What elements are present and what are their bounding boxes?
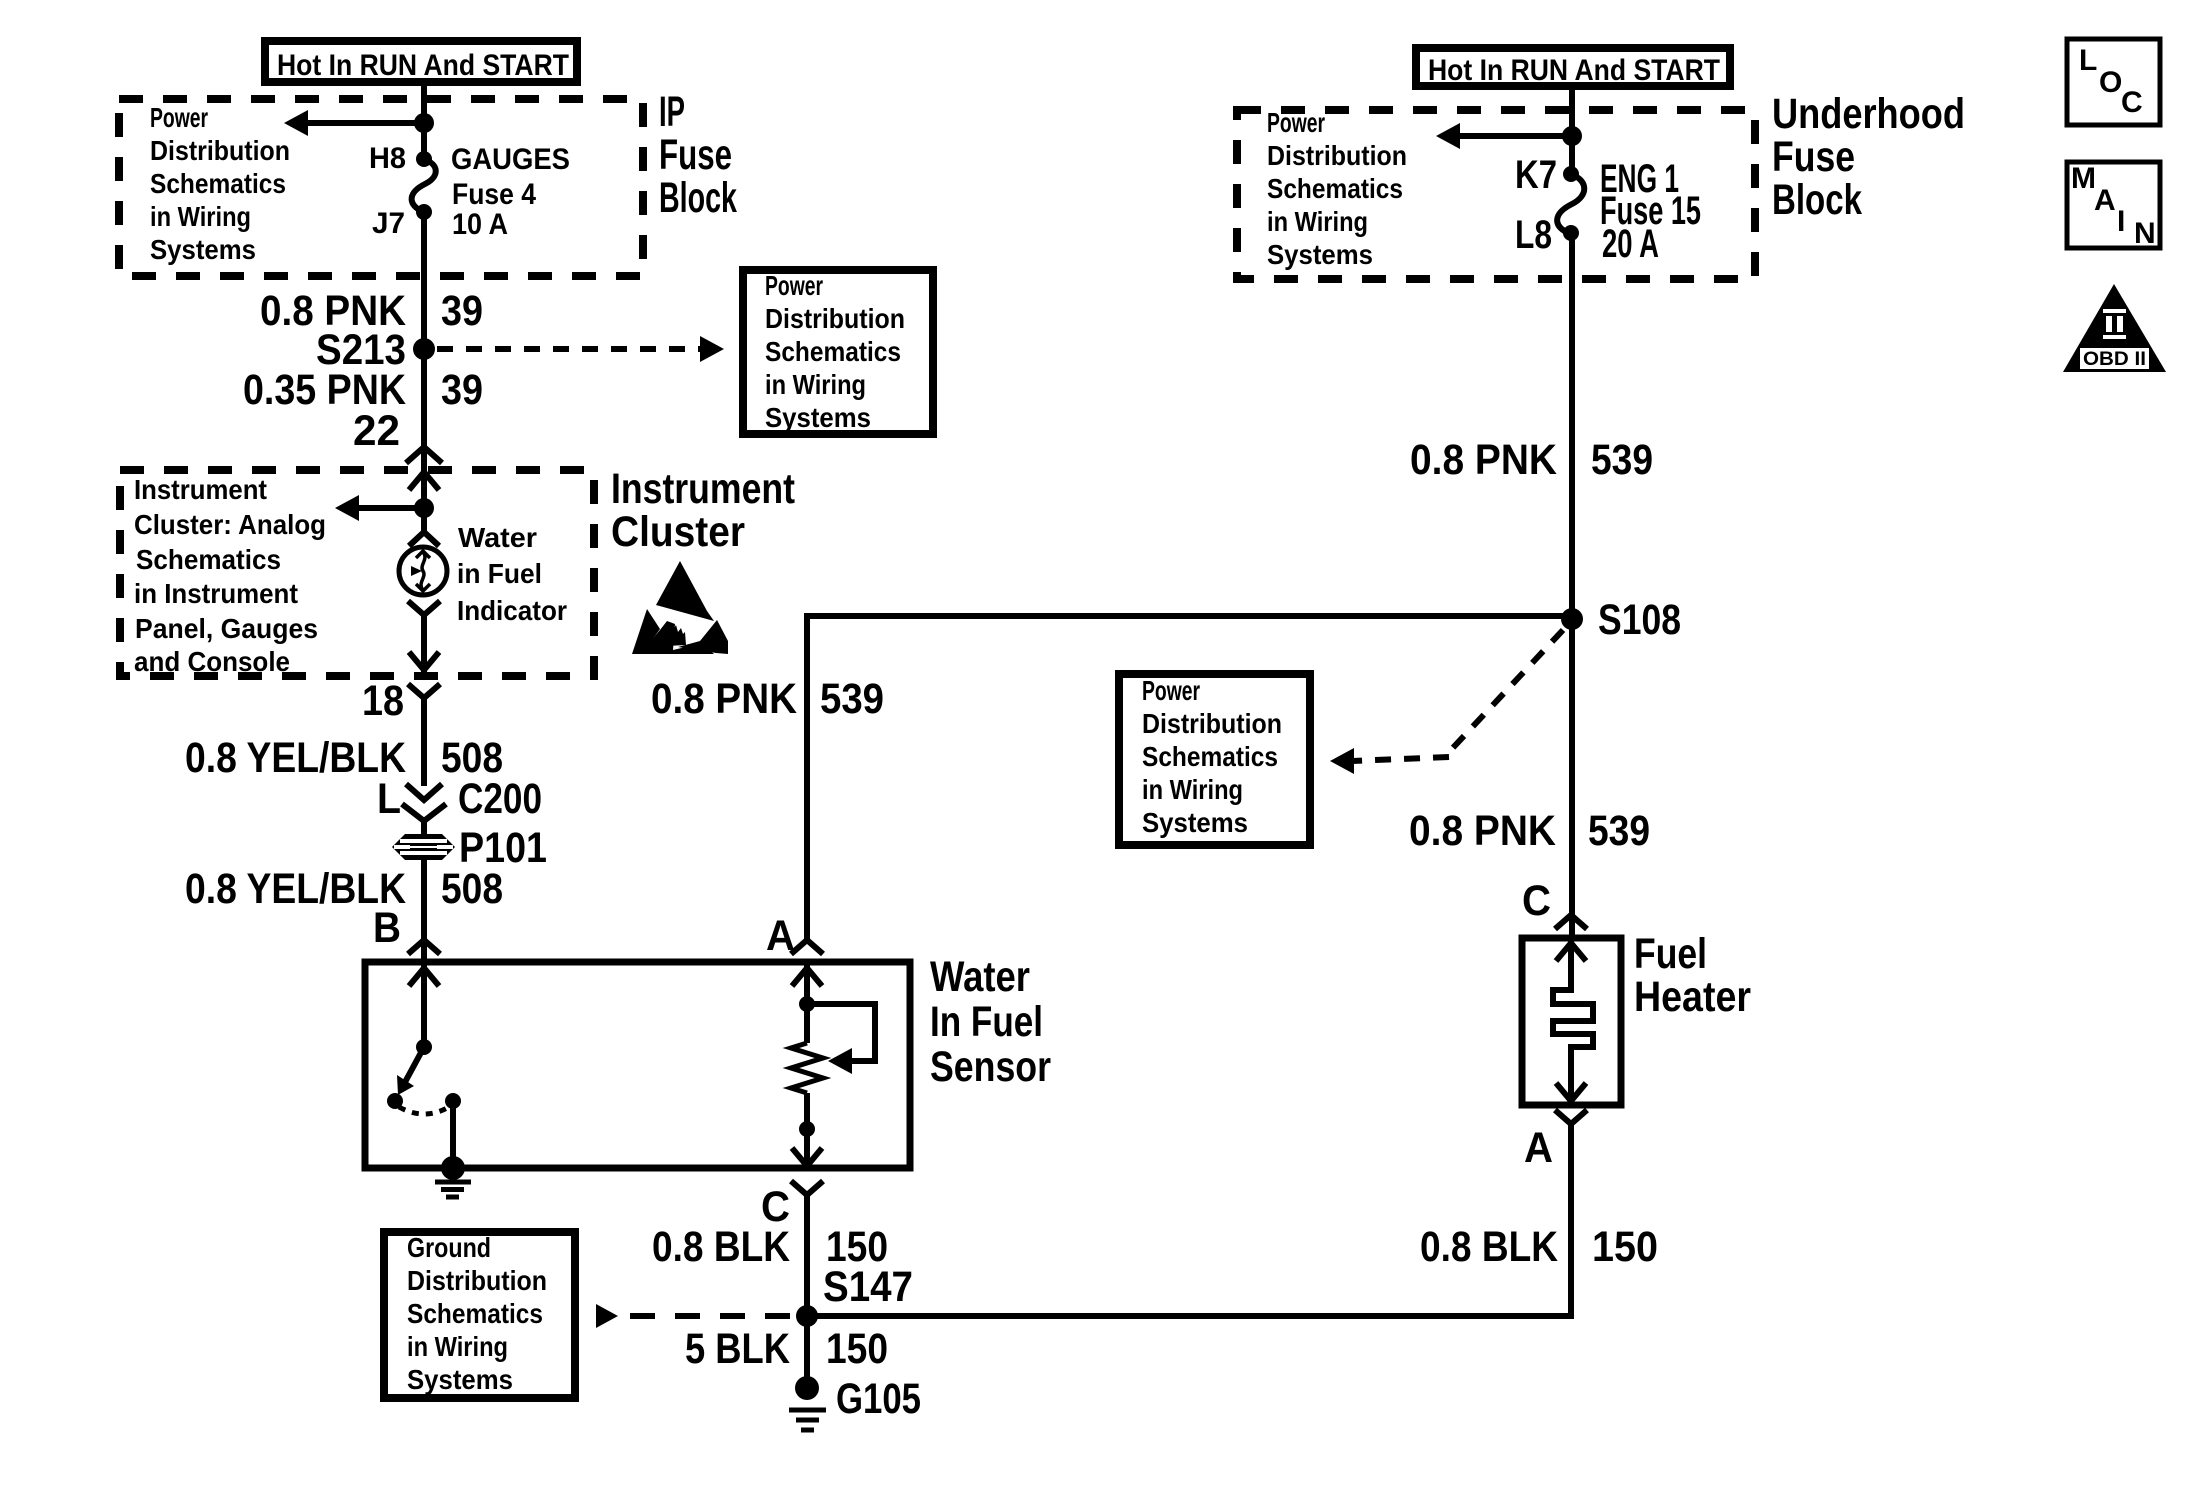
wire: arrow to power distribution (left) (284, 110, 424, 136)
note box: Ground Distribution Schematics in Wiring Systems (384, 1232, 575, 1398)
label: Water In Fuel Sensor (930, 953, 1051, 1091)
svg-text:508: 508 (441, 865, 503, 913)
note box: Power Distribution Schematics in Wiring Systems (S213 ref) (743, 270, 933, 434)
svg-text:Schematics: Schematics (765, 336, 901, 367)
svg-text:Cluster: Cluster (611, 508, 745, 556)
svg-text:0.8 PNK: 0.8 PNK (651, 675, 797, 723)
component box: Water In Fuel Sensor (365, 962, 910, 1168)
wire: resistor to sensor C (804, 1093, 810, 1165)
svg-text:Sensor: Sensor (930, 1043, 1051, 1091)
fuse F4 terminal J7 (416, 204, 432, 220)
wire: dot to indicator (421, 508, 427, 533)
splice S147 (796, 1305, 818, 1327)
indicator: Water in Fuel Indicator (circle gauge) (399, 547, 447, 595)
svg-text:Fuel: Fuel (1634, 930, 1707, 978)
svg-text:Systems: Systems (407, 1364, 513, 1395)
svg-text:0.8 YEL/BLK: 0.8 YEL/BLK (185, 734, 406, 782)
node: Hot In RUN And START (right) (1416, 48, 1730, 87)
label: Underhood Fuse Block (1772, 90, 1965, 224)
svg-text:GAUGES: GAUGES (451, 143, 570, 176)
svg-text:Systems: Systems (150, 234, 256, 265)
wire: contact to case ground (450, 1101, 456, 1168)
connector half above indicator (409, 532, 439, 546)
svg-text:18: 18 (362, 677, 404, 725)
svg-text:S147: S147 (823, 1263, 913, 1311)
svg-text:22: 22 (353, 407, 400, 455)
svg-text:20 A: 20 A (1602, 222, 1659, 266)
svg-text:in Fuel: in Fuel (457, 558, 542, 589)
svg-text:L: L (377, 775, 401, 823)
svg-text:Power: Power (150, 102, 208, 133)
wire: S108 branch to water in fuel sensor pin A (807, 616, 1572, 940)
svg-text:in Wiring: in Wiring (407, 1331, 508, 1362)
wire: into cluster (up arrow) (409, 472, 439, 490)
label: Water in Fuel Indicator (457, 522, 567, 626)
wire: dashed reference arrow from S213 (437, 336, 724, 362)
label: Fuel Heater (1634, 930, 1751, 1021)
note: Instrument Cluster: Analog Schematics (in cluster box) (134, 474, 326, 677)
svg-text:Power: Power (1142, 675, 1200, 706)
wire: fuse output down to instrument cluster (421, 212, 427, 508)
svg-text:B: B (373, 904, 401, 952)
wire: down arrow at sensor C exit (792, 1148, 822, 1166)
wire: feed into IP fuse block (421, 83, 427, 159)
svg-text:Fuse: Fuse (659, 131, 732, 179)
label: Instrument Cluster (611, 465, 795, 556)
svg-text:0.8 BLK: 0.8 BLK (1420, 1223, 1558, 1271)
svg-text:in Wiring: in Wiring (1267, 206, 1368, 237)
svg-text:Schematics: Schematics (150, 168, 286, 199)
connector half (sensor pin B) (408, 940, 440, 954)
svg-text:Power: Power (765, 270, 823, 301)
note: Power Distribution Schematics in Wiring Systems (in IP box) (150, 102, 290, 265)
svg-text:O: O (2099, 66, 2122, 99)
switch pivot dot (416, 1039, 432, 1055)
wire: feed into underhood fuse block (1569, 86, 1575, 174)
splice S108 (1561, 608, 1583, 630)
wire: sensor A internal (up arrow) (792, 965, 822, 1043)
svg-text:5 BLK: 5 BLK (685, 1325, 790, 1373)
Instrument Cluster dashed box (120, 470, 594, 676)
wire: sensor B internal (up arrow) (409, 965, 439, 1047)
connector C200 (female half) (402, 804, 446, 821)
wire: C200 to P101 (421, 818, 427, 836)
switch arm with arrowhead (397, 1047, 424, 1095)
wire label 0.35 PNK 39 (243, 366, 483, 414)
svg-text:K7: K7 (1515, 153, 1557, 197)
wire: down arrow at cluster exit (409, 652, 439, 670)
connector half (sensor pin C) (791, 1181, 823, 1195)
svg-text:Block: Block (1772, 176, 1862, 224)
switch throw dashed arc (399, 1107, 449, 1114)
wire label 5 BLK 150 (685, 1325, 888, 1373)
connector half (pin 22) (406, 447, 442, 463)
svg-text:Systems: Systems (1267, 239, 1373, 270)
wire label 0.8 PNK 39 (260, 287, 483, 335)
ground: sensor case ground (435, 1156, 471, 1197)
svg-text:Distribution: Distribution (150, 135, 290, 166)
note: Power Distribution Schematics in Wiring Systems (in underhood box) (1267, 107, 1407, 270)
svg-text:10 A: 10 A (452, 208, 508, 241)
svg-text:S108: S108 (1598, 596, 1681, 644)
svg-text:and Console: and Console (134, 646, 290, 677)
svg-text:A: A (1524, 1124, 1553, 1172)
wire: indicator to cluster exit (421, 615, 427, 675)
svg-text:A: A (2094, 184, 2116, 217)
junction dot (resistor top) (799, 996, 815, 1012)
svg-text:Distribution: Distribution (1267, 140, 1407, 171)
junction dot (cluster feed) (414, 498, 434, 518)
svg-text:Heater: Heater (1634, 973, 1751, 1021)
wiper feedback loop with arrowhead (807, 1004, 875, 1074)
label: ENG 1 Fuse 15 20 A (1600, 157, 1701, 266)
connector half (sensor pin A) (791, 940, 823, 954)
connector half below indicator (408, 601, 440, 615)
svg-text:Distribution: Distribution (407, 1265, 547, 1296)
note box: Power Distribution Schematics in Wiring Systems (S108 ref) (1119, 674, 1310, 845)
wire: arrow to cluster schematics (left) (335, 495, 424, 521)
wire: S147 to G105 (804, 1316, 810, 1388)
connector half (pin 18) (408, 684, 440, 698)
fuse F4 terminal H8 (416, 151, 432, 167)
svg-text:IP: IP (659, 88, 685, 136)
svg-text:Hot In RUN And START: Hot In RUN And START (277, 49, 569, 82)
svg-text:39: 39 (441, 366, 483, 414)
splice S213 (413, 338, 435, 360)
grommet P101 (392, 834, 455, 860)
connector half (heater pin A) (1555, 1110, 1587, 1124)
svg-text:39: 39 (441, 287, 483, 335)
svg-text:539: 539 (1591, 436, 1653, 484)
svg-text:Distribution: Distribution (1142, 708, 1282, 739)
wire: pin 18 down to C200 (421, 698, 427, 786)
svg-text:150: 150 (1592, 1223, 1658, 1271)
svg-text:Systems: Systems (765, 402, 871, 433)
svg-text:Instrument: Instrument (134, 474, 267, 505)
svg-text:Systems: Systems (1142, 807, 1248, 838)
svg-text:C200: C200 (458, 775, 542, 823)
wire: fuse 15 down to S108 and fuel heater (1569, 233, 1575, 938)
svg-text:Cluster: Analog: Cluster: Analog (134, 509, 326, 540)
wire label 0.8 PNK 539 (upper right) (1410, 436, 1653, 484)
svg-text:J7: J7 (372, 207, 405, 240)
ground G105 (789, 1376, 826, 1430)
wire label 0.8 BLK 150 (652, 1223, 888, 1271)
svg-text:I: I (2117, 205, 2125, 238)
resistor: sensing element (791, 1043, 823, 1093)
svg-text:Schematics: Schematics (136, 544, 281, 575)
label: IP Fuse Block (659, 88, 737, 222)
wire: dashed reference arrow from S108 (1330, 630, 1563, 774)
svg-text:Panel, Gauges: Panel, Gauges (135, 613, 318, 644)
wire: arrow to power distribution (right) (1436, 123, 1572, 149)
wire label 0.8 YEL/BLK 508 (185, 734, 503, 782)
svg-text:H8: H8 (369, 142, 406, 175)
wire label 0.8 PNK 539 (sensor branch) (651, 675, 884, 723)
wire label 0.8 BLK 150 (heater ground) (1420, 1223, 1658, 1271)
icon: ESD sensitive device triangle (632, 561, 728, 654)
component box: Fuel Heater (1522, 938, 1621, 1105)
svg-text:Underhood: Underhood (1772, 90, 1965, 138)
svg-text:0.8 PNK: 0.8 PNK (1409, 807, 1556, 855)
connector C200 (male half) (406, 784, 442, 800)
svg-text:Schematics: Schematics (1142, 741, 1278, 772)
fuse F15 terminal K7 (1563, 166, 1579, 182)
svg-text:C: C (1522, 877, 1551, 925)
svg-text:539: 539 (1588, 807, 1650, 855)
svg-text:L8: L8 (1515, 213, 1552, 257)
svg-text:N: N (2134, 217, 2156, 250)
svg-text:0.8 BLK: 0.8 BLK (652, 1223, 790, 1271)
switch contact dot (left) (387, 1093, 403, 1109)
svg-text:150: 150 (826, 1325, 888, 1373)
svg-text:Distribution: Distribution (765, 303, 905, 334)
wire: sensor C to S147 (804, 1195, 810, 1316)
svg-text:Hot In RUN And START: Hot In RUN And START (1428, 54, 1720, 87)
svg-text:Instrument: Instrument (611, 465, 795, 513)
svg-text:Water: Water (930, 953, 1030, 1001)
svg-text:539: 539 (820, 675, 884, 723)
svg-text:in Wiring: in Wiring (765, 369, 866, 400)
wire: dashed reference arrow to ground distribution (596, 1304, 796, 1328)
fuse F4 GAUGES Fuse 4 10A (412, 159, 436, 211)
wire: S147 to fuel heater ground run (807, 1124, 1571, 1316)
fuse F15 ENG 1 Fuse 15 20A (1557, 174, 1584, 233)
connector half (heater pin C) (1555, 915, 1587, 929)
svg-text:Schematics: Schematics (407, 1298, 543, 1329)
IP Fuse Block dashed box (119, 99, 643, 276)
svg-text:Indicator: Indicator (457, 595, 567, 626)
junction dot (underhood feed) (1562, 126, 1582, 146)
svg-text:0.8 PNK: 0.8 PNK (1410, 436, 1557, 484)
node: Hot In RUN And START (left) (265, 41, 577, 82)
svg-text:L: L (2079, 44, 2097, 77)
svg-text:M: M (2071, 162, 2096, 195)
wire label 0.8 YEL/BLK 508 (lower) (185, 865, 503, 913)
icon: LOC legend box (2067, 39, 2160, 125)
junction dot (resistor bottom) (799, 1121, 815, 1137)
wire: P101 to sensor pin B (421, 860, 427, 962)
svg-text:in Wiring: in Wiring (150, 201, 251, 232)
svg-text:OBD II: OBD II (2083, 349, 2146, 370)
junction dot (IP feed) (414, 113, 434, 133)
fuse F15 terminal L8 (1563, 225, 1579, 241)
svg-text:Fuse 4: Fuse 4 (452, 178, 536, 211)
svg-text:in Wiring: in Wiring (1142, 774, 1243, 805)
label: GAUGES Fuse 4 10 A (451, 143, 570, 241)
svg-text:Block: Block (659, 174, 737, 222)
icon: MAIN legend box (2067, 162, 2160, 250)
svg-text:G105: G105 (836, 1375, 921, 1423)
svg-text:Ground: Ground (407, 1232, 491, 1263)
Underhood Fuse Block dashed box (1237, 110, 1755, 279)
svg-text:in Instrument: in Instrument (134, 578, 298, 609)
svg-text:Power: Power (1267, 107, 1325, 138)
svg-text:In Fuel: In Fuel (930, 998, 1043, 1046)
icon: OBD II triangle (2063, 284, 2166, 372)
svg-text:Schematics: Schematics (1267, 173, 1403, 204)
svg-text:Fuse: Fuse (1772, 133, 1855, 181)
svg-text:Water: Water (458, 522, 537, 553)
svg-text:C: C (2121, 86, 2143, 119)
heater element (up arrow, square wave, down arrow) (1553, 941, 1593, 1101)
wire label 0.8 PNK 539 (heater feed) (1409, 807, 1650, 855)
switch contact dot (right) (445, 1093, 461, 1109)
